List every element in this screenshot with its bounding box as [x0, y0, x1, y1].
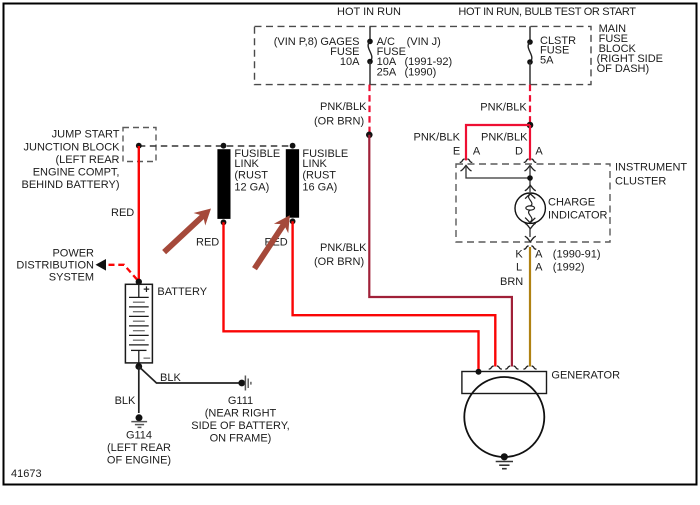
arrow into E (up chevron) — [461, 165, 472, 171]
wire: RED link2 to generator pin 2 — [293, 221, 496, 366]
fuse A/C (element squiggle with terminals) — [367, 39, 373, 65]
pointer arrow at link1 — [158, 202, 217, 258]
generator circle — [464, 377, 544, 457]
label: FUSIBLE LINK (RUST 12 GA) — [234, 148, 280, 194]
label: CLSTR FUSE 5A — [540, 35, 576, 66]
svg-text:DISTRIBUTION: DISTRIBUTION — [16, 260, 94, 272]
svg-text:A: A — [535, 262, 543, 274]
svg-text:BATTERY: BATTERY — [157, 286, 207, 298]
svg-text:RED: RED — [111, 207, 134, 219]
svg-text:ON FRAME): ON FRAME) — [210, 432, 272, 444]
svg-text:K: K — [515, 249, 523, 261]
wire: RED dashed to power distribution system — [109, 265, 139, 282]
jump start junction block dashed box — [123, 128, 156, 162]
wire: dashed jumper from junction block to fusible links — [139, 145, 292, 147]
svg-text:JUMP START: JUMP START — [52, 129, 120, 141]
svg-text:LINK: LINK — [234, 158, 259, 170]
svg-text:PNK/BLK: PNK/BLK — [481, 132, 528, 144]
fuse CLSTR (element squiggle with terminals) — [527, 39, 533, 65]
power distribution arrowhead — [96, 259, 107, 271]
svg-text:RED: RED — [196, 236, 219, 248]
label: (VIN P,8) GAGES FUSE 10A — [274, 36, 360, 68]
svg-text:BEHIND BATTERY): BEHIND BATTERY) — [22, 179, 120, 191]
generator case ground — [496, 453, 513, 469]
junction dot in jump start block — [136, 143, 142, 149]
wire: RED battery to junction block — [138, 146, 140, 282]
wire: BRN to generator pin 4 — [529, 247, 531, 367]
arrow out of cluster (down chevron) — [525, 236, 536, 242]
wire: PNK/BLK dashed from A/C fuse — [368, 85, 370, 133]
charge indicator inner up arrow — [525, 194, 535, 199]
svg-text:(LEFT REAR: (LEFT REAR — [107, 442, 171, 454]
generator pin 3 connector arc — [505, 366, 518, 369]
label: G111 (NEAR RIGHT SIDE OF BATTERY, ON FRAME) — [191, 395, 289, 444]
svg-text:PNK/BLK: PNK/BLK — [414, 132, 461, 144]
svg-text:E: E — [453, 146, 460, 158]
svg-text:CLUSTER: CLUSTER — [615, 175, 666, 187]
svg-text:A: A — [535, 146, 543, 158]
svg-text:PNK/BLK: PNK/BLK — [480, 102, 527, 114]
wire: CLSTR fuse feed (top stub) — [529, 26, 531, 42]
svg-text:(1990-91): (1990-91) — [553, 249, 601, 261]
generator pin 4 connector arc — [523, 366, 536, 369]
svg-text:HOT IN RUN, BULB TEST OR START: HOT IN RUN, BULB TEST OR START — [458, 6, 636, 18]
charge indicator filament ellipse — [526, 206, 535, 210]
svg-text:(1990): (1990) — [405, 66, 437, 78]
splice dot on PNK/BLK wire — [366, 132, 373, 139]
svg-text:OF DASH): OF DASH) — [597, 63, 650, 75]
svg-text:INSTRUMENT: INSTRUMENT — [615, 162, 687, 174]
connector D arc — [524, 159, 537, 163]
label: A/C FUSE values — [377, 36, 453, 78]
label: FUSIBLE LINK (RUST 16 GA) — [302, 148, 348, 194]
svg-text:5A: 5A — [540, 54, 554, 66]
svg-text:PNK/BLK: PNK/BLK — [320, 242, 367, 254]
svg-text:GENERATOR: GENERATOR — [551, 370, 620, 382]
wire: RED link1 to generator pin 1 — [224, 222, 479, 371]
wire: PNK/BLK branch to connector E — [466, 125, 530, 160]
label: MAIN FUSE BLOCK (RIGHT SIDE OF DASH) — [597, 23, 663, 75]
svg-text:A: A — [473, 146, 481, 158]
wire: PNK/BLK (OR BRN) run to generator pin 3 — [369, 135, 512, 367]
svg-text:D: D — [515, 146, 523, 158]
chevron below charge indicator — [525, 223, 536, 229]
label: G114 (LEFT REAR OF ENGINE) — [107, 429, 171, 466]
svg-text:(LEFT REAR: (LEFT REAR — [56, 154, 120, 166]
svg-text:SIDE OF BATTERY,: SIDE OF BATTERY, — [191, 420, 289, 432]
svg-text:(OR BRN): (OR BRN) — [314, 256, 364, 268]
svg-text:G111: G111 — [228, 395, 253, 407]
svg-text:12 GA): 12 GA) — [234, 182, 269, 194]
cluster internal junction dot — [527, 175, 533, 181]
wire: PNK/BLK dashed from CLSTR fuse — [529, 85, 531, 122]
fusible link F1 (RUST 12 GA) — [217, 143, 230, 225]
svg-text:(1992): (1992) — [553, 262, 585, 274]
svg-text:L: L — [516, 262, 522, 274]
svg-text:(VIN P,8): (VIN P,8) — [274, 36, 318, 48]
svg-text:INDICATOR: INDICATOR — [548, 210, 608, 222]
svg-text:BRN: BRN — [500, 276, 523, 288]
wire: CLSTR fuse output to box edge — [529, 62, 531, 85]
charge indicator filament squiggle upper — [529, 194, 532, 206]
svg-text:25A: 25A — [377, 66, 397, 78]
svg-text:–: – — [144, 350, 151, 364]
generator housing rect — [462, 372, 547, 394]
svg-text:LINK: LINK — [302, 158, 327, 170]
svg-text:POWER: POWER — [52, 248, 94, 260]
svg-text:+: + — [143, 284, 149, 296]
connector E arc — [460, 159, 473, 163]
generator pin 2 connector arc — [489, 366, 502, 369]
svg-text:PNK/BLK: PNK/BLK — [320, 101, 367, 113]
generator pin 1 dot — [476, 369, 482, 375]
label: JUMP START JUNCTION BLOCK (LEFT REAR ENGINE COMPT, BEHIND BATTERY) — [22, 129, 121, 191]
svg-text:(NEAR RIGHT: (NEAR RIGHT — [205, 407, 277, 419]
battery B1 — [125, 279, 152, 370]
svg-text:BLK: BLK — [115, 395, 136, 407]
charge indicator inner down arrow — [525, 218, 535, 223]
svg-text:JUNCTION BLOCK: JUNCTION BLOCK — [24, 141, 121, 153]
svg-text:CHARGE: CHARGE — [548, 197, 595, 209]
svg-text:16 GA): 16 GA) — [302, 182, 337, 194]
cluster internal wire lamp to exit — [529, 229, 531, 237]
wire: BLK battery to G111 — [139, 367, 239, 384]
charge indicator filament squiggle lower — [529, 210, 532, 222]
svg-text:10A: 10A — [340, 56, 360, 68]
ground G111 (frame ground symbol) — [238, 376, 250, 391]
chevron above charge indicator — [525, 185, 536, 191]
svg-text:(VIN J): (VIN J) — [407, 36, 441, 48]
svg-text:(OR BRN): (OR BRN) — [314, 116, 364, 128]
svg-text:A: A — [535, 249, 543, 261]
instrument cluster dashed box — [456, 164, 610, 242]
svg-text:G114: G114 — [126, 429, 152, 441]
svg-text:SYSTEM: SYSTEM — [49, 271, 94, 283]
charge indicator lamp circle — [515, 193, 545, 223]
wire: A/C fuse output to box edge — [369, 62, 371, 85]
cluster internal wire D to lamp — [529, 166, 531, 192]
ground G114 — [131, 414, 147, 427]
wire: BLK battery to G114 — [138, 367, 140, 414]
label: POWER DISTRIBUTION SYSTEM — [16, 248, 94, 284]
svg-text:ENGINE COMPT,: ENGINE COMPT, — [33, 166, 120, 178]
svg-text:41673: 41673 — [11, 468, 42, 480]
junction dot PNK/BLK splice — [527, 122, 534, 129]
svg-text:(RUST: (RUST — [234, 170, 268, 182]
arrow into D (up chevron) — [525, 165, 536, 171]
connector arc below cluster — [524, 246, 537, 250]
wire: PNK/BLK junction to connector D — [529, 125, 531, 160]
wire: A/C fuse feed (top stub) — [369, 26, 371, 41]
fusible link F2 (RUST 16 GA) — [286, 143, 299, 224]
svg-text:HOT IN RUN: HOT IN RUN — [337, 6, 401, 18]
pointer arrow at link2 — [247, 211, 297, 274]
svg-text:OF ENGINE): OF ENGINE) — [107, 454, 171, 466]
svg-text:(RUST: (RUST — [302, 170, 336, 182]
main fuse block dashed box — [255, 26, 592, 84]
cluster internal wire E branch — [466, 166, 530, 178]
